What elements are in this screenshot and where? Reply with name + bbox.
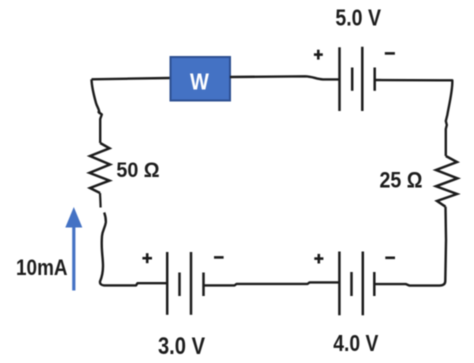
plate long left xyxy=(166,252,169,315)
plate short right xyxy=(373,68,376,91)
wire: left vertical upper segment xyxy=(92,79,102,143)
svg-text:25 Ω: 25 Ω xyxy=(380,169,423,193)
plate short xyxy=(350,272,353,296)
current arrow 10mA xyxy=(65,207,82,291)
minus sign of B3 xyxy=(385,256,395,259)
battery B1 5.0V xyxy=(340,47,375,111)
svg-text:10mA: 10mA xyxy=(16,256,68,281)
wire: top-left horizontal segment xyxy=(92,78,171,79)
plate long right xyxy=(190,252,193,315)
svg-text:4.0 V: 4.0 V xyxy=(333,332,378,357)
svg-text:50 Ω: 50 Ω xyxy=(116,159,159,182)
resistor R1 50ohm zigzag xyxy=(90,143,111,193)
wire: top middle segment (box to 5V battery) xyxy=(230,76,339,79)
plate short xyxy=(178,273,181,297)
plate short right xyxy=(373,272,376,296)
battery B3 4.0V xyxy=(339,252,374,316)
plate long right xyxy=(361,47,364,111)
plate long right xyxy=(362,252,365,316)
wire: top right segment and right vertical upper xyxy=(375,80,453,156)
plate short right xyxy=(202,273,205,297)
plate long left xyxy=(338,47,341,111)
wire: bottom middle segment between batteries xyxy=(204,282,340,285)
wire: left vertical lower segment xyxy=(99,193,102,208)
svg-text:W: W xyxy=(190,68,209,95)
resistor R2 25ohm zigzag xyxy=(436,156,458,207)
plus sign of B2 xyxy=(142,253,152,263)
plus sign of B3 xyxy=(314,254,323,264)
minus sign of B2 xyxy=(214,256,224,259)
plate short xyxy=(351,68,354,91)
svg-text:3.0 V: 3.0 V xyxy=(158,332,205,359)
minus sign of B1 xyxy=(385,52,395,55)
svg-text:5.0 V: 5.0 V xyxy=(335,5,381,31)
wire: left vertical lower segment (after pen-lift gap) xyxy=(100,213,167,286)
plate long left xyxy=(338,252,341,316)
load box W xyxy=(171,57,231,101)
battery B2 3.0V xyxy=(167,252,203,315)
wire: right vertical lower segment xyxy=(375,207,446,286)
plus sign of B1 xyxy=(314,50,323,60)
